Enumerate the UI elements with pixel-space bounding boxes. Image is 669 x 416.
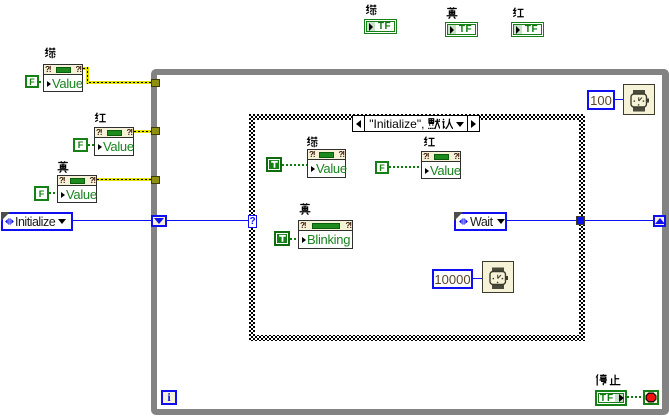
tunnel 红 on loop border bbox=[151, 127, 160, 135]
TF indicator 绿 bbox=[364, 19, 397, 34]
wait (ms) function top-right bbox=[623, 84, 655, 115]
wire T to node bbox=[290, 238, 298, 240]
wire T to node bbox=[282, 164, 307, 166]
label 黄 bbox=[57, 161, 69, 173]
case selector terminal ? bbox=[248, 215, 257, 228]
loop condition terminal (stop sign) bbox=[643, 390, 659, 405]
wire 100 to wait fn bbox=[615, 99, 623, 100]
case structure border (checkerboard) bbox=[249, 114, 585, 341]
wire F to 绿 node (dotted green) bbox=[39, 81, 43, 83]
while loop border bbox=[151, 69, 669, 415]
wire Wait to case tunnel bbox=[507, 220, 576, 221]
case tunnel (blue) bbox=[576, 216, 585, 225]
label 绿 (top) bbox=[365, 4, 377, 16]
property node 红 (Value) bbox=[94, 127, 134, 156]
label 红 bbox=[94, 112, 106, 124]
label 黄 (top) bbox=[446, 7, 458, 19]
wire 10000 to wait fn bbox=[473, 278, 482, 279]
error wire 绿 node to tunnel bbox=[83, 67, 89, 70]
error wire 红 node to tunnel bbox=[134, 130, 151, 133]
label 停止 bbox=[595, 374, 607, 386]
boolean constant F (绿) bbox=[25, 75, 39, 88]
property node 黄 (Value) bbox=[57, 175, 97, 203]
boolean constant F (case 红) bbox=[375, 161, 389, 174]
wire tunnel to right shift register bbox=[585, 220, 653, 221]
left shift register bbox=[151, 215, 167, 227]
wire enum to left shift register bbox=[73, 220, 151, 221]
wire F to 红 node bbox=[88, 144, 94, 146]
boolean constant F (红) bbox=[73, 138, 88, 152]
property node 绿 (Value) bbox=[43, 64, 83, 92]
boolean constant T (case 绿) bbox=[266, 157, 282, 172]
wire TF to condition terminal bbox=[627, 396, 643, 398]
wire F to 黄 node bbox=[49, 192, 57, 194]
tunnel 绿 on loop border bbox=[151, 79, 160, 87]
error wire 黄 node to tunnel bbox=[97, 178, 151, 181]
wait (ms) function bbox=[482, 261, 514, 293]
right shift register bbox=[653, 215, 666, 227]
property node 黄 Blinking bbox=[298, 220, 353, 249]
numeric constant 10000 bbox=[432, 269, 473, 289]
tunnel 黄 on loop border bbox=[151, 176, 160, 184]
boolean constant F (黄) bbox=[34, 186, 49, 201]
label 黄 (case) bbox=[299, 203, 311, 215]
wire shift register to case selector bbox=[167, 220, 249, 221]
label 绿 (case) bbox=[306, 136, 318, 148]
label 红 (case) bbox=[423, 136, 435, 148]
TF indicator 红 bbox=[511, 22, 544, 37]
wire F to node bbox=[389, 166, 421, 168]
hidden svg defs for CJK glyphs bbox=[0, 0, 1, 1]
TF indicator 黄 bbox=[445, 22, 478, 37]
property node 红 Value (case) bbox=[421, 151, 461, 179]
property node 绿 Value (case) bbox=[307, 149, 346, 178]
numeric constant 100 bbox=[587, 90, 615, 110]
label 绿 bbox=[44, 47, 56, 59]
TF control 停止 bbox=[595, 390, 627, 406]
label 红 (top) bbox=[512, 7, 524, 19]
boolean constant T (case 黄) bbox=[274, 231, 290, 246]
